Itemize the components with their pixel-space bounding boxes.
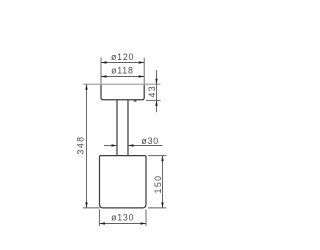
extension line right for diameter 130 (145, 210, 147, 227)
svg-text:ø118: ø118 (111, 66, 134, 76)
button bump on head underside (134, 100, 137, 102)
extension line top for 150 (148, 155, 166, 157)
label 150 (153, 175, 163, 194)
dimension line diameter 30 right tail (128, 144, 163, 146)
extension line right for diameter 120/118 (143, 58, 145, 85)
extension line bottom for 348 (83, 207, 100, 209)
svg-text:ø30: ø30 (141, 136, 159, 146)
label diameter 118 (111, 66, 134, 76)
svg-text:ø120: ø120 (111, 52, 134, 62)
svg-text:ø130: ø130 (111, 212, 134, 222)
svg-text:348: 348 (76, 136, 86, 155)
svg-text:43: 43 (147, 85, 157, 97)
dimension line 348 (85, 84, 87, 208)
label diameter 30 (141, 136, 159, 146)
lamp head disc outline (101, 84, 144, 100)
label 348 (76, 136, 86, 155)
stem left edge wire (116, 100, 118, 156)
dimension line diameter 118 (101, 75, 144, 77)
dimension line diameter 120 (101, 61, 144, 63)
dimension line 150 (161, 156, 163, 208)
label 43 (147, 85, 157, 97)
extension line bottom for 43 (146, 99, 161, 101)
label diameter 120 (111, 52, 134, 62)
label diameter 130 (111, 212, 134, 222)
extension line left for diameter 120/118 (100, 58, 102, 85)
stem right edge wire (127, 100, 129, 156)
dimension line diameter 30 left tail (104, 144, 117, 146)
extension line top for 43 and disc top edge (83, 83, 161, 85)
extension line bottom for 150 (148, 207, 166, 209)
svg-text:150: 150 (153, 175, 163, 194)
base cylinder outline (100, 156, 147, 208)
extension line left for diameter 130 (98, 210, 100, 227)
dimension line diameter 130 (99, 222, 146, 224)
dimension line 43 (155, 70, 157, 112)
